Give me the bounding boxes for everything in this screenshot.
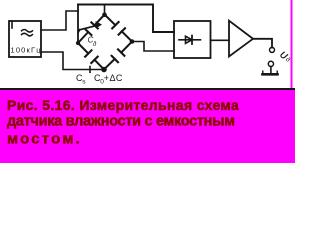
diode VD1 cathode bar	[191, 36, 193, 44]
amplifier A1 triangle	[229, 21, 253, 57]
wire gen top output	[41, 11, 78, 30]
svg-text:+ΔC: +ΔC	[104, 73, 123, 83]
wire top vertex stub	[104, 5, 106, 15]
generator AC symbol wave 2	[22, 33, 33, 36]
magenta caption panel	[0, 90, 295, 163]
wire right corner to diode box	[132, 42, 174, 52]
bridge node dots	[76, 12, 134, 72]
magenta stripe right edge	[291, 0, 293, 90]
svg-text:100кГц: 100кГц	[11, 46, 42, 55]
capacitor Cs plates	[85, 50, 98, 63]
wire amplifier output	[253, 39, 272, 48]
node B top vertex	[102, 12, 107, 17]
capacitor top-right plates	[112, 22, 125, 35]
svg-text:мостом.: мостом.	[7, 131, 82, 148]
diode VD1 triangle	[186, 36, 193, 43]
wire left vertical to bridge node A	[77, 5, 79, 44]
ground symbol	[263, 73, 278, 76]
diode box U1	[174, 21, 211, 58]
wire to ground	[270, 67, 272, 74]
node A left corner	[76, 41, 80, 45]
svg-text:датчика влажности с емкостным: датчика влажности с емкостным	[7, 114, 235, 130]
capacitor Cd plates	[85, 22, 98, 35]
arrow head	[96, 22, 101, 28]
arrow tail tick	[78, 30, 80, 33]
variable capacitor arrow	[80, 25, 100, 30]
node D bottom vertex	[101, 67, 107, 73]
generator AC symbol wave 1	[22, 30, 33, 33]
terminal circle ground side	[268, 61, 273, 66]
bridge arm top-right with capacitor gap	[105, 15, 133, 42]
wire diode box to amplifier	[211, 39, 230, 41]
generator G1 inner tick	[11, 21, 13, 28]
terminal circle output Ud	[270, 47, 275, 52]
label tick Cs on bottom rail	[89, 67, 91, 73]
wire top rail	[78, 5, 174, 33]
generator G1 box	[9, 21, 41, 57]
node C right corner	[130, 39, 135, 44]
white background	[0, 0, 295, 163]
bridge arm bottom-right with capacitor C0 gap	[104, 42, 132, 70]
capacitor C0 plates	[112, 49, 125, 62]
wire gen bottom output	[41, 52, 102, 70]
black separator line	[0, 88, 295, 90]
caption text	[7, 97, 239, 148]
bridge arm bottom-left with capacitor Cs gap	[78, 43, 104, 70]
bridge arm top-left with capacitor Cd gap	[78, 15, 105, 44]
diode VD1 lead line	[179, 39, 201, 41]
texts	[11, 36, 293, 86]
svg-text:Рис. 5.16. Измерительная схема: Рис. 5.16. Измерительная схема	[7, 97, 239, 113]
